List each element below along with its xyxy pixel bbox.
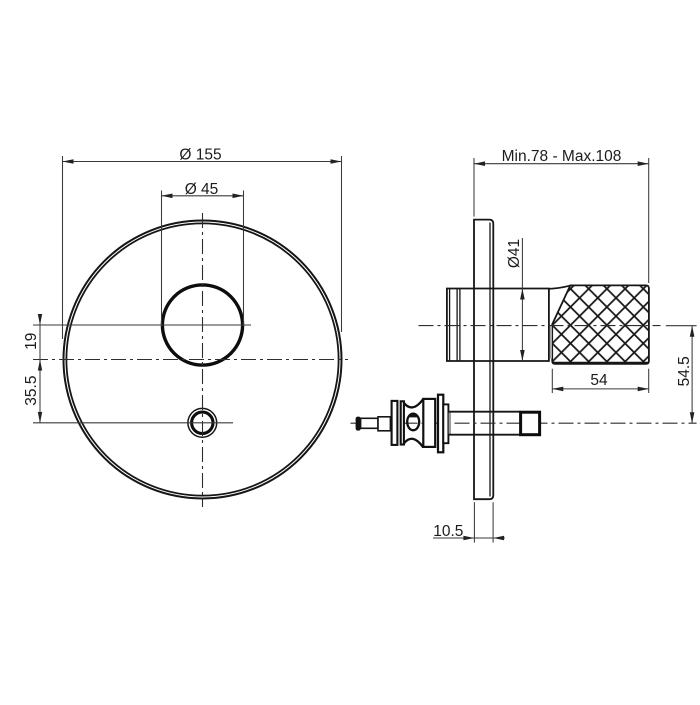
step block	[443, 404, 448, 443]
dim Min.78-Max.108 line	[474, 163, 649, 165]
54.5 arrow top	[690, 326, 695, 337]
ball top cap fill	[408, 413, 418, 417]
knurl bottom boundary	[553, 362, 649, 364]
diverter hole inner circle	[192, 412, 213, 433]
gray band	[449, 412, 451, 434]
10.5 ext right	[492, 502, 494, 542]
spindle step	[378, 417, 390, 431]
svg-text:54: 54	[590, 372, 608, 389]
dim Ø45 ext right	[243, 191, 245, 327]
svg-text:Min.78 - Max.108: Min.78 - Max.108	[502, 148, 622, 165]
54.5 arrow bottom	[690, 412, 695, 423]
wall plate side	[474, 220, 493, 500]
knurl pattern	[548, 282, 653, 370]
spool top curve	[404, 399, 423, 408]
plate inner rim circle	[66, 223, 338, 495]
svg-text:54.5: 54.5	[676, 356, 693, 386]
spool bottom curve	[404, 439, 423, 448]
flange C	[438, 395, 443, 453]
54 ext right	[648, 369, 650, 393]
svg-text:10.5: 10.5	[433, 523, 463, 540]
ext knob right	[648, 158, 650, 283]
diverter hole outer circle	[188, 408, 217, 437]
svg-text:35.5: 35.5	[23, 376, 40, 406]
dim Ø155 left arrow	[63, 159, 74, 164]
cylinder groove line 1	[456, 289, 458, 361]
shadow band at knob root	[550, 326, 552, 359]
svg-text:Ø 45: Ø 45	[185, 181, 219, 198]
54 ext left	[551, 369, 553, 393]
dim 54 line	[552, 388, 648, 390]
knurled knob outline	[552, 285, 649, 364]
spindle tip cap	[356, 417, 361, 431]
cylinder groove line 2	[459, 289, 461, 361]
dim Ø41 line	[521, 238, 523, 361]
flange A	[392, 401, 398, 445]
dim Ø155 right arrow	[331, 159, 342, 164]
vertical centerline	[202, 213, 204, 507]
spindle rod	[361, 418, 378, 428]
svg-text:Ø41: Ø41	[506, 239, 523, 268]
dim Ø45 right arrow	[233, 194, 244, 199]
arrow down at hole center	[38, 412, 42, 423]
dim Ø155 ext right	[341, 156, 343, 332]
dim Ø45 ext left	[161, 191, 163, 327]
54.5 ext top	[666, 325, 697, 327]
plate outer circle	[64, 221, 342, 499]
knob circle front	[162, 285, 242, 365]
arrow left	[474, 161, 485, 166]
svg-text:19: 19	[23, 333, 40, 350]
flange B	[401, 401, 404, 444]
wall plate inner edge line	[489, 223, 491, 497]
shaft top line	[448, 411, 520, 413]
Ø41 arrow up	[520, 289, 525, 300]
ball bottom sliver	[410, 428, 416, 431]
Ø41 arrow down	[520, 350, 525, 361]
dim 19/35.5 vertical line	[39, 314, 41, 423]
shoulder curve	[549, 286, 570, 289]
arrow down at knob center	[38, 314, 42, 325]
cylinder cap line	[449, 289, 451, 361]
spindle axis centerline	[351, 422, 697, 424]
dim Ø45 left arrow	[162, 194, 173, 199]
dim 54.5 line	[691, 326, 693, 424]
arrow up at centerline	[38, 360, 42, 371]
54 arrow left	[552, 387, 563, 392]
horizontal centerline	[33, 359, 348, 361]
10.5 ext left	[473, 502, 475, 542]
ball	[407, 414, 419, 431]
10.5 arrow left-pointing	[493, 536, 504, 541]
hole center extension line	[33, 422, 233, 424]
knob center extension line	[33, 324, 251, 326]
shaft bottom line	[448, 434, 520, 436]
ext plate top	[473, 158, 475, 217]
arrow right	[638, 161, 649, 166]
big disc	[423, 399, 435, 447]
valve body cylinder	[447, 289, 549, 362]
dim Ø155 line	[63, 161, 342, 163]
svg-text:Ø 155: Ø 155	[179, 147, 221, 164]
10.5 arrow right-pointing	[463, 536, 474, 541]
dim Ø45 line	[162, 195, 244, 197]
dim Ø155 ext left	[62, 156, 64, 339]
dim 10.5 line	[433, 537, 505, 539]
54 arrow right	[638, 387, 649, 392]
shaft end block	[521, 412, 540, 435]
cylinder axis centerline	[419, 325, 661, 327]
